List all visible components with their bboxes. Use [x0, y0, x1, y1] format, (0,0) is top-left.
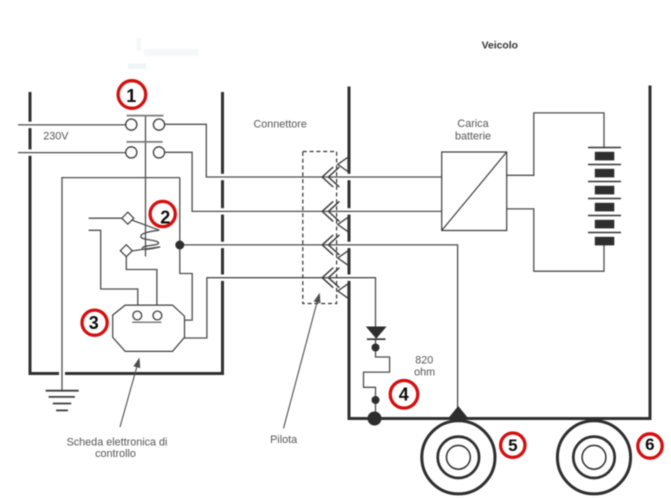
svg-text:4: 4	[399, 385, 409, 405]
svg-text:230V: 230V	[43, 131, 69, 143]
svg-text:6: 6	[645, 435, 654, 454]
svg-text:Connettore: Connettore	[253, 119, 306, 131]
svg-text:1: 1	[126, 86, 136, 106]
svg-text:3: 3	[89, 313, 99, 333]
svg-text:batterie: batterie	[455, 131, 491, 143]
svg-text:Carica: Carica	[457, 118, 488, 130]
svg-text:Scheda elettronica di: Scheda elettronica di	[67, 437, 168, 449]
svg-text:Veicolo: Veicolo	[482, 40, 518, 51]
svg-text:820: 820	[415, 355, 433, 367]
svg-text:2: 2	[160, 208, 170, 228]
svg-text:controllo: controllo	[95, 448, 136, 460]
svg-text:Pilota: Pilota	[270, 434, 297, 446]
svg-text:ohm: ohm	[414, 367, 435, 379]
svg-text:5: 5	[508, 436, 517, 455]
